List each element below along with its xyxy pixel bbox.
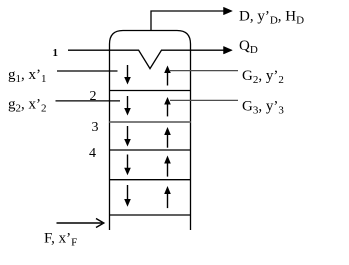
- g1 stream line: [57, 70, 118, 72]
- label g2, x'2: [8, 97, 47, 115]
- tray 5 line: [110, 179, 191, 181]
- label G3, y'3: [242, 98, 284, 116]
- column shell (distillation column outline with rounded top cap): [110, 31, 191, 231]
- svg-text:g2, x’2: g2, x’2: [8, 97, 47, 115]
- tray 3 line (grey): [110, 121, 191, 123]
- svg-text:G2, y’2: G2, y’2: [242, 68, 284, 86]
- svg-text:3: 3: [92, 120, 99, 135]
- condenser overhead pipe to D: [151, 7, 232, 30]
- tray number 1: [53, 47, 59, 59]
- label g1, x'1: [8, 67, 47, 85]
- svg-text:G3, y’3: G3, y’3: [242, 98, 284, 116]
- section 4 vapour up-arrow: [164, 156, 171, 177]
- label G2, y'2: [242, 68, 284, 86]
- section 4 liquid down-arrow: [124, 155, 131, 176]
- label QD: [239, 38, 258, 56]
- svg-text:g1, x’1: g1, x’1: [8, 67, 47, 85]
- tray number 4: [89, 146, 96, 161]
- g2 stream line: [56, 100, 121, 102]
- G2 stream line (grey): [170, 70, 238, 72]
- tray number 3: [92, 120, 99, 135]
- section 2 vapour up-arrow: [164, 97, 171, 116]
- tray number 2: [90, 89, 97, 104]
- section 5 vapour up-arrow: [164, 186, 171, 208]
- svg-text:D, y’D, HD: D, y’D, HD: [239, 8, 304, 26]
- svg-text:1: 1: [53, 47, 59, 59]
- feed arrow F (open head): [57, 219, 104, 228]
- tray 1 line with V notch and QD outlet line: [68, 46, 232, 68]
- tray 4 line: [110, 149, 191, 151]
- section 3 vapour up-arrow: [164, 127, 171, 148]
- section 1 vapour up-arrow: [164, 66, 171, 86]
- section 1 liquid down-arrow: [124, 65, 131, 85]
- G3 stream line (grey): [170, 99, 238, 101]
- svg-text:QD: QD: [239, 38, 258, 56]
- section 2 liquid down-arrow: [124, 96, 131, 116]
- svg-text:2: 2: [90, 89, 97, 104]
- svg-text:4: 4: [89, 146, 96, 161]
- section 5 liquid down-arrow: [124, 185, 131, 207]
- label D, y'D, HD: [239, 8, 304, 26]
- tray 2 line: [110, 90, 191, 92]
- label F, x'F: [44, 231, 77, 249]
- section 3 liquid down-arrow: [124, 126, 131, 147]
- svg-text:F, x’F: F, x’F: [44, 231, 77, 249]
- bottom tray line: [110, 214, 191, 216]
